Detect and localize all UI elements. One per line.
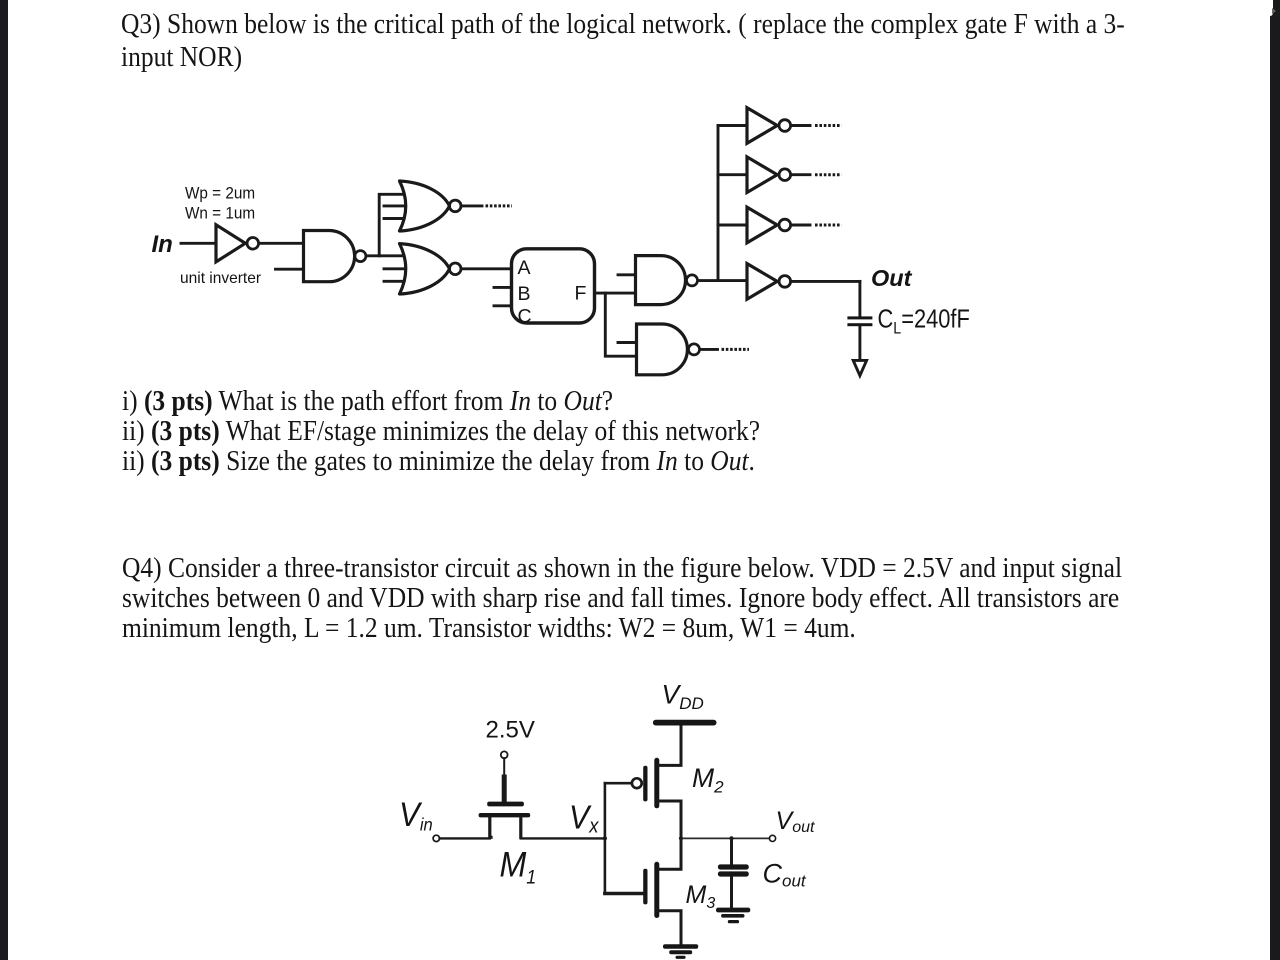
wire branch to U3 — [718, 173, 747, 176]
transistor M1 gate bar — [487, 802, 524, 807]
pin label A — [518, 257, 531, 279]
svg-text:In: In — [152, 231, 173, 258]
wire G3 middle input stub — [384, 267, 405, 270]
inverter U4 — [747, 207, 777, 243]
wire Cout to ground — [730, 877, 733, 908]
svg-text:Wp = 2um: Wp = 2um — [185, 184, 255, 203]
capacitor CL — [847, 316, 872, 326]
wire U4 output — [792, 224, 811, 227]
label M1 — [500, 846, 537, 887]
transistor M3 channel bar — [654, 862, 659, 918]
svg-text:unit inverter: unit inverter — [180, 270, 261, 287]
complex gate F body — [512, 249, 595, 323]
label unit inverter — [180, 270, 261, 287]
transistor M2 channel bar — [654, 758, 659, 809]
node Vx junction dot — [603, 836, 607, 840]
wire G2 bottom input stub — [384, 217, 403, 220]
node 2.5V terminal — [501, 751, 508, 758]
node Vin terminal — [433, 835, 439, 841]
wire dots after G2 — [486, 204, 513, 207]
wire G3 output to F input A — [462, 267, 512, 270]
label VDD — [662, 679, 704, 713]
wire G5 output — [701, 348, 718, 351]
svg-text:Vin: Vin — [399, 795, 433, 835]
node Vout terminal — [769, 835, 775, 841]
wire CL to ground — [858, 326, 861, 360]
svg-text:Vout: Vout — [776, 807, 815, 836]
wire F input C stub — [494, 304, 512, 307]
wire M1 to Vx node — [521, 837, 605, 839]
inverter U1 (unit inverter) — [216, 225, 245, 262]
right bar white notch — [1270, 0, 1273, 16]
wire branch to U4 — [718, 224, 747, 227]
wire M3 source down — [658, 911, 681, 945]
pin label C — [518, 306, 532, 328]
nor gate G2 (3-input NOR, top) — [400, 181, 450, 231]
nand gate G4 — [636, 256, 686, 305]
Q3 heading text — [121, 10, 1125, 39]
wire Cout branch — [730, 838, 733, 864]
wire G1 lower input stub — [276, 268, 304, 271]
transistor M1 drain leg — [519, 817, 522, 837]
svg-text:Wn = 1um: Wn = 1um — [185, 204, 255, 223]
svg-text:2.5V: 2.5V — [486, 716, 535, 743]
ground under Cout — [716, 908, 750, 924]
wire U1 to nand G1 — [260, 242, 304, 245]
pin label F — [575, 283, 587, 305]
nand gate G1 — [304, 231, 355, 282]
power VDD bar — [653, 720, 717, 726]
wire M3 gate — [605, 892, 643, 896]
node output junction dot — [679, 836, 683, 840]
ground under M3 — [663, 944, 698, 959]
wire dots after U4 — [815, 224, 842, 227]
label Vin — [399, 795, 433, 835]
wire dots after U2 — [815, 124, 842, 127]
svg-text:CL=240fF: CL=240fF — [877, 305, 969, 338]
wire G4 output to inverter U5 — [699, 279, 748, 282]
svg-text:Out: Out — [871, 265, 913, 291]
node Out — [871, 265, 913, 291]
wire G5 upper input stub — [618, 341, 637, 344]
wire In to inverter U1 — [181, 242, 216, 245]
inverter U3 — [747, 157, 777, 193]
right black edge bar — [1270, 0, 1280, 960]
label CL=240fF — [877, 305, 969, 338]
svg-text:B: B — [518, 283, 531, 305]
wire G2 output — [462, 204, 482, 207]
label Cout — [763, 858, 807, 890]
svg-text:M2: M2 — [692, 763, 724, 797]
wire branch to M2 gate — [605, 782, 632, 785]
left black edge bar — [0, 0, 8, 960]
svg-text:M1: M1 — [500, 846, 537, 887]
node In — [152, 231, 173, 258]
transistor M2 gate bubble (PMOS) — [632, 778, 642, 788]
inverter U2 — [747, 108, 777, 144]
wire U3 output — [792, 173, 811, 176]
wire dots after U3 — [815, 173, 842, 176]
wire G3 bottom input stub — [384, 280, 403, 283]
ground (arrow) — [853, 360, 866, 375]
svg-text:Cout: Cout — [763, 858, 807, 890]
svg-text:Vx: Vx — [569, 798, 600, 837]
wire Out down to capacitor CL — [858, 281, 861, 316]
transistor M2 gate bar — [643, 766, 647, 802]
wire M2 source to VDD — [658, 726, 681, 765]
label Vx — [569, 798, 600, 837]
wire branch to U2 — [718, 124, 747, 127]
transistor M1 source leg — [490, 817, 491, 837]
wire G1 output to nor G3 top input — [368, 254, 410, 257]
nand gate G5 — [637, 324, 688, 375]
label M3 — [686, 881, 716, 912]
wire Vin to M1 — [440, 837, 490, 839]
wire G4 upper input stub — [618, 273, 636, 276]
wire M3 drain to output node — [658, 838, 681, 869]
wire G2 middle input stub — [384, 204, 405, 207]
label Wp = 2um — [185, 184, 255, 203]
nor gate G3 (3-input NOR, lower) — [400, 244, 450, 294]
svg-text:M3: M3 — [686, 881, 716, 912]
svg-text:VDD: VDD — [662, 679, 704, 713]
wire branch down to nand G5 — [605, 293, 636, 356]
Q3 sub questions — [122, 387, 613, 416]
wire F input B stub — [494, 286, 512, 289]
label Wn = 1um — [185, 204, 255, 223]
label 2.5V — [486, 716, 535, 743]
inverter U5 (main path) — [747, 264, 777, 300]
wire output node to Vout — [681, 837, 769, 839]
transistor M1 channel bar — [479, 813, 531, 817]
wire U5 output to Out — [792, 280, 860, 283]
wire M2 drain down — [658, 801, 681, 838]
Q4 paragraph — [122, 554, 1122, 583]
wire 2.5V terminal to M1 gate — [503, 758, 505, 801]
svg-text:A: A — [518, 257, 531, 279]
node Cout junction dot — [729, 836, 733, 840]
label M2 — [692, 763, 724, 797]
capacitor Cout — [718, 864, 749, 876]
wire F output to nand G4 — [595, 292, 636, 295]
pin label B — [518, 283, 531, 305]
wire Vx vertical branch — [604, 783, 607, 893]
svg-text:C: C — [518, 306, 532, 328]
svg-text:F: F — [575, 283, 587, 305]
wire fanout trunk vertical — [717, 126, 720, 281]
wire U2 output — [792, 124, 811, 127]
wire dots after G5 — [722, 348, 750, 351]
transistor M3 gate bar — [643, 869, 647, 905]
wire branch vertical up to nor G2 — [379, 194, 409, 256]
label Vout — [776, 807, 815, 836]
